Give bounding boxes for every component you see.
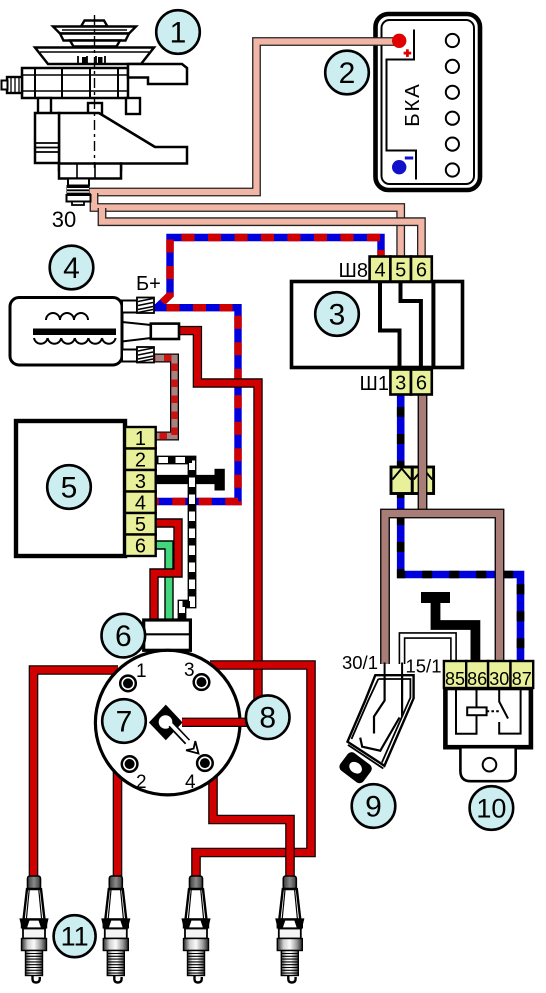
wire red: distributor terminal 3 to spark plug 3 (196, 665, 311, 878)
svg-text:11: 11 (61, 922, 89, 952)
coil bottom stud (122, 350, 137, 362)
ground tab T-bar (215, 469, 225, 491)
callout 9 (352, 784, 396, 828)
svg-text:30/1: 30/1 (342, 652, 378, 673)
wire red high-voltage: coil tower to distributor center (via node 8) (178, 331, 258, 712)
distributor terminal 2 (122, 756, 138, 772)
callout 1 (156, 10, 200, 54)
unit 3 (ignition relay box) (292, 282, 463, 368)
wire white: ignition switch 15/1 to relay pin 85 (402, 636, 454, 665)
distributor terminal 1 (120, 676, 136, 692)
svg-text:1: 1 (136, 661, 147, 682)
callout 8 (246, 695, 290, 739)
wire red: distributor terminal 4 to spark plug 4 (213, 760, 290, 878)
callout 10 (470, 786, 514, 830)
alternator output terminal 30 (68, 179, 89, 186)
connector Ш8 pins 4 5 6 (339, 257, 432, 283)
svg-text:6: 6 (416, 373, 427, 395)
callout 7 (102, 699, 146, 743)
svg-text:4: 4 (185, 772, 196, 793)
callout 4 (50, 246, 94, 290)
battery - terminal (392, 160, 406, 174)
svg-text:2: 2 (136, 772, 147, 793)
svg-text:Ш1: Ш1 (360, 373, 389, 395)
svg-text:А: А (401, 84, 424, 98)
svg-text:86: 86 (467, 669, 487, 689)
coil terminal Б+ (top stud) (122, 301, 137, 313)
svg-text:К: К (401, 99, 424, 111)
distributor terminal 4 (197, 755, 213, 771)
relay (unit 10) body (445, 688, 531, 781)
svg-text:87: 87 (512, 669, 532, 689)
callout 3 (315, 292, 359, 336)
rotor (149, 705, 183, 741)
rotor arrow (171, 724, 199, 754)
svg-text:3: 3 (184, 660, 195, 681)
battery АКБ body (376, 14, 481, 190)
wire blue-red: Ш8 pin4 to coil Б+ to unit5 pin4 (150, 238, 381, 502)
callout 11 (54, 915, 96, 957)
svg-text:1: 1 (170, 17, 187, 50)
wire pink: alternator 30 to Ш8 pin6 (102, 208, 421, 257)
svg-text:5: 5 (395, 260, 406, 282)
ground T-bar near relay (421, 592, 450, 603)
wire black: ground tab to relay pin 86 (436, 597, 476, 663)
wire pink: alternator 30 to battery + (86, 42, 396, 193)
svg-text:10: 10 (476, 794, 506, 824)
svg-text:5: 5 (61, 472, 78, 505)
connector Х1 (two-way splice) (391, 467, 434, 494)
label АКБ (401, 84, 424, 127)
spark plug 4 (277, 876, 303, 983)
wire black-white: unit5 pin2 to distributor unit6 (153, 460, 192, 621)
relay pins 85 86 30 87 (444, 661, 533, 688)
spark plug 3 (183, 876, 209, 983)
svg-text:2: 2 (339, 57, 356, 90)
wire blue-black: Ш1 pin3 through connector to relay pin 87 (401, 394, 521, 663)
svg-text:3: 3 (329, 299, 346, 332)
svg-text:1: 1 (135, 428, 146, 450)
svg-text:6: 6 (416, 260, 427, 282)
svg-text:15/1: 15/1 (405, 656, 441, 677)
svg-text:Ш8: Ш8 (339, 260, 368, 282)
spark plug 2 (103, 876, 129, 983)
battery + terminal (392, 34, 406, 48)
alternator (unit 1) (2, 15, 188, 205)
svg-text:5: 5 (135, 514, 146, 536)
svg-text:8: 8 (259, 702, 276, 735)
ignition coil (unit 4) (10, 273, 179, 365)
svg-text:4: 4 (135, 493, 146, 515)
unit5 pins 1-6 (125, 427, 156, 556)
battery cell circles (446, 34, 459, 177)
wire red: distributor terminal 2 to spark plug 2 (113, 758, 123, 878)
svg-text:4: 4 (63, 252, 80, 285)
wire red: rotor to HV lead (node 8) (182, 718, 252, 727)
unit 6 (distributor low-voltage connector) (144, 620, 191, 650)
spark plug 1 (21, 876, 47, 983)
wire red: unit5 pin5 to unit6 (153, 523, 178, 621)
svg-text:3: 3 (135, 471, 146, 493)
wire black: unit5 pin3 to ground tab (153, 475, 215, 484)
svg-text:30: 30 (52, 207, 76, 232)
callout 6 (102, 614, 146, 658)
svg-text:9: 9 (365, 791, 382, 824)
svg-text:6: 6 (135, 536, 146, 558)
svg-text:85: 85 (445, 669, 465, 689)
svg-text:3: 3 (395, 373, 406, 395)
svg-text:Б+: Б+ (136, 273, 161, 295)
distributor body (unit 7) (95, 650, 240, 795)
svg-text:2: 2 (135, 450, 146, 472)
unit 5 (ignition control module box) (16, 421, 125, 556)
svg-text:7: 7 (116, 706, 133, 739)
svg-text:30: 30 (489, 669, 509, 689)
wire pink: alternator 30 to Ш8 pin5 (94, 193, 401, 257)
key head (337, 750, 373, 785)
svg-text:6: 6 (115, 620, 132, 653)
svg-text:4: 4 (374, 260, 385, 282)
svg-text:Б: Б (401, 113, 424, 126)
callout 2 (325, 51, 369, 95)
wire brown-red: coil terminal to unit5 pin1 (151, 358, 175, 436)
wire green: unit5 pin6 to unit6 (153, 545, 169, 621)
wire red: distributor terminal 1 to spark plug 1 (34, 670, 119, 878)
ignition switch (unit 9) (337, 652, 441, 785)
connector Ш1 pins 3 6 (360, 370, 432, 396)
callout 5 (47, 465, 91, 509)
distributor terminal 3 (194, 674, 210, 690)
wire brown: Ш1 pin6 to ignition switch 30/1 and relay pin 30 (385, 394, 500, 664)
